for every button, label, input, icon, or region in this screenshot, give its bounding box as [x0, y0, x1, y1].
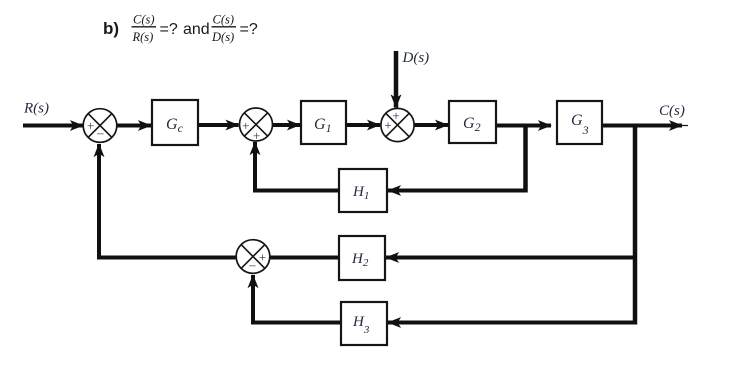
svg-text:=?: =?	[160, 21, 178, 38]
svg-text:+: +	[384, 118, 391, 133]
svg-text:R(s): R(s)	[23, 101, 49, 117]
svg-text:=?: =?	[240, 21, 258, 38]
svg-text:and: and	[183, 21, 210, 38]
svg-text:R(s): R(s)	[132, 30, 154, 44]
svg-text:C(s): C(s)	[133, 13, 155, 27]
svg-text:+: +	[253, 128, 260, 143]
svg-text:+: +	[87, 118, 94, 133]
svg-text:+: +	[242, 118, 249, 133]
svg-text:C(s): C(s)	[213, 13, 235, 27]
svg-text:+: +	[392, 108, 399, 123]
svg-text:C(s): C(s)	[659, 103, 685, 119]
svg-text:+: +	[259, 250, 266, 265]
svg-text:b): b)	[103, 19, 119, 38]
svg-text:D(s): D(s)	[211, 30, 234, 44]
svg-text:D(s): D(s)	[402, 50, 430, 66]
svg-text:−: −	[97, 128, 105, 143]
svg-text:−: −	[249, 260, 257, 275]
